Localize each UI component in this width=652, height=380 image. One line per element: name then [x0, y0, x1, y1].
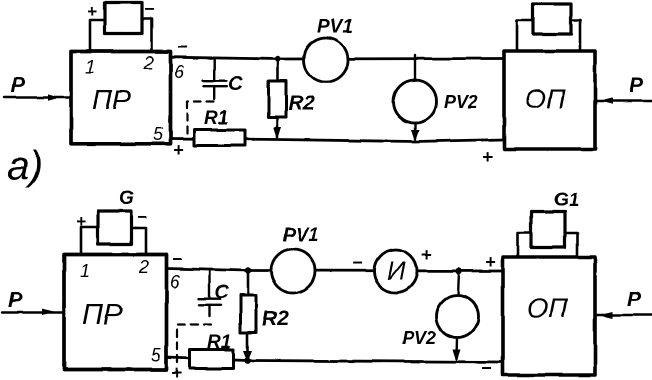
svg-text:−: −: [144, 0, 154, 19]
svg-text:Р: Р: [8, 289, 23, 312]
voltmeter PV2 (circuit a): [394, 55, 437, 142]
dashed shield wire (circuit a): [187, 102, 214, 140]
svg-text:2: 2: [143, 53, 154, 73]
svg-text:Р: Р: [627, 288, 642, 311]
svg-text:Р: Р: [11, 74, 26, 97]
svg-text:2: 2: [138, 257, 149, 277]
svg-text:PV2: PV2: [402, 328, 436, 348]
svg-text:+: +: [482, 147, 493, 167]
voltmeter PV1 (circuit a): [304, 38, 348, 82]
svg-text:5: 5: [151, 346, 162, 366]
resistor R1 (bottom): [190, 350, 234, 369]
svg-text:6: 6: [170, 272, 181, 292]
top wire (minus bus, bottom circuit): [167, 269, 504, 272]
block ПР (transducer, circuit a): [71, 52, 171, 144]
svg-text:PV1: PV1: [283, 225, 319, 246]
svg-text:ОП: ОП: [525, 84, 566, 114]
resistor R2 (circuit a): [269, 59, 287, 140]
svg-text:R1: R1: [204, 108, 228, 129]
input force arrow P left (circuit a): [4, 74, 70, 101]
svg-text:−: −: [137, 208, 147, 227]
svg-text:−: −: [172, 249, 183, 269]
junction at R2 top (bottom): [245, 267, 251, 273]
svg-text:G: G: [119, 188, 134, 209]
block ОП (circuit a): [504, 51, 595, 149]
generator G1 box (bottom): [531, 212, 565, 247]
junction at R2 bottom (bottom): [243, 351, 252, 363]
indicator И (bottom): [374, 250, 417, 293]
input force arrow P right (bottom): [595, 288, 652, 319]
svg-text:C: C: [228, 73, 243, 95]
svg-text:R1: R1: [207, 332, 231, 353]
svg-text:+: +: [76, 212, 86, 231]
svg-text:+: +: [485, 252, 496, 272]
wire from sensor box to pin 2 (circuit a): [142, 19, 152, 51]
voltmeter PV2 (bottom): [437, 271, 479, 362]
svg-text:a): a): [7, 144, 43, 188]
generator G box (bottom): [98, 211, 131, 244]
svg-text:G1: G1: [554, 190, 579, 211]
svg-text:6: 6: [174, 62, 185, 82]
svg-text:−: −: [481, 358, 492, 378]
resistor R1 (circuit a): [194, 130, 245, 146]
voltmeter PV1 (bottom): [271, 249, 315, 293]
svg-text:PV2: PV2: [444, 92, 478, 112]
capacitor C (bottom): [199, 270, 222, 316]
resistor R2 (bottom): [241, 271, 257, 360]
wire from generator G1 to ОП left (bottom): [518, 233, 532, 257]
svg-text:+: +: [173, 140, 184, 160]
svg-text:И: И: [387, 256, 406, 286]
sensor element above ПР (circuit a): [105, 3, 142, 34]
input force arrow P left (bottom): [2, 289, 63, 315]
svg-text:ПР: ПР: [82, 299, 123, 331]
block ПР (bottom circuit): [64, 255, 167, 370]
svg-text:R2: R2: [288, 92, 315, 115]
junction at R2 top (circuit a): [274, 56, 280, 62]
svg-text:R2: R2: [262, 307, 289, 330]
wire from sensor box to pin 1 (circuit a): [90, 20, 105, 51]
capacitor C (circuit a): [203, 59, 227, 100]
svg-text:+: +: [171, 363, 182, 380]
svg-text:ОП: ОП: [527, 293, 568, 323]
sensor element above ОП (circuit a): [533, 4, 571, 34]
wire from sensor box to ОП left (circuit a): [517, 20, 533, 51]
top wire (minus bus, circuit a): [171, 57, 505, 59]
wire from generator G1 to ОП right (bottom): [565, 233, 578, 257]
svg-text:C: C: [215, 282, 229, 303]
svg-text:1: 1: [80, 261, 90, 281]
svg-text:5: 5: [153, 125, 164, 145]
svg-text:ПР: ПР: [92, 84, 131, 115]
bottom wire (plus bus, bottom circuit): [167, 358, 504, 363]
svg-text:Р: Р: [629, 74, 644, 97]
svg-text:+: +: [421, 245, 432, 265]
wire from sensor box to ОП right (circuit a): [571, 20, 580, 51]
block ОП (bottom): [503, 257, 595, 375]
input force arrow P right (circuit a): [595, 74, 652, 104]
svg-text:−: −: [352, 253, 363, 273]
bottom wire (plus bus, circuit a): [171, 139, 505, 142]
svg-text:−: −: [177, 37, 188, 57]
wire from generator G to pin 2 (bottom): [131, 228, 146, 254]
junction at PV2 top (bottom): [456, 268, 462, 274]
wire from generator G to pin 1 (bottom): [81, 227, 98, 254]
svg-text:+: +: [87, 2, 97, 21]
svg-text:1: 1: [85, 57, 95, 77]
dashed shield wire (bottom): [177, 325, 211, 367]
svg-text:PV1: PV1: [317, 17, 353, 38]
